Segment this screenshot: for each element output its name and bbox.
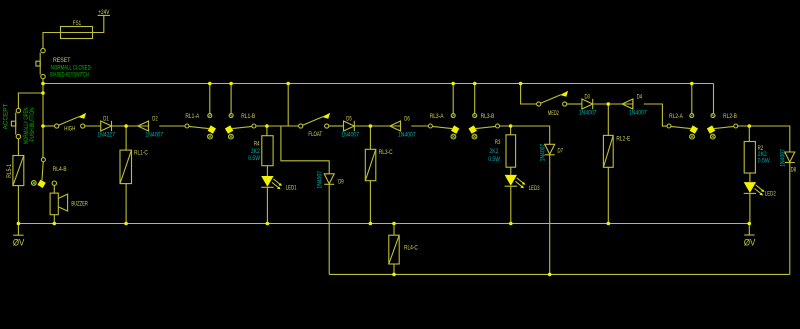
svg-text:RL1-A: RL1-A — [185, 113, 199, 120]
wire D9 down to bottom rail — [328, 184, 330, 274]
buzzer BUZZER — [50, 181, 88, 215]
svg-text:1N4007: 1N4007 — [341, 131, 359, 138]
wire HIGH to D1 — [85, 125, 101, 127]
svg-text:D6: D6 — [404, 115, 410, 122]
power port 0V left — [13, 235, 25, 247]
wire RL3-B to D7 branch corner — [500, 126, 550, 144]
wire MED2 to D3 — [567, 103, 582, 105]
svg-text:LED2: LED2 — [765, 190, 776, 197]
svg-text:RL4-C: RL4-C — [404, 244, 418, 251]
wire 0V ground rail — [18, 223, 749, 225]
wire RL1-B to FLOAT — [256, 125, 299, 127]
diode D8 1N4007 (vertical) — [780, 149, 797, 174]
relay contact RL3-B — [469, 113, 500, 139]
svg-text:LED3: LED3 — [529, 185, 540, 192]
svg-text:RL3-A: RL3-A — [430, 113, 444, 120]
power port +24V — [98, 9, 110, 16]
diode D9 1N4007 (vertical) — [316, 170, 344, 188]
diode D2 1N4007 — [138, 116, 164, 139]
wire D6 to RL3-A — [411, 125, 428, 127]
wire FLOAT to D5 — [329, 125, 344, 127]
svg-text:R3: R3 — [495, 139, 501, 146]
wire node to resistor R4 — [266, 126, 268, 136]
svg-text:LED1: LED1 — [286, 185, 297, 192]
svg-text:1N4007: 1N4007 — [316, 170, 323, 188]
svg-text:0.5W: 0.5W — [248, 155, 260, 162]
wire top supply rail — [43, 83, 714, 85]
svg-text:D5: D5 — [346, 116, 352, 123]
svg-text:0.5W: 0.5W — [488, 156, 500, 163]
svg-text:RL1-C: RL1-C — [134, 150, 148, 157]
svg-text:+24V: +24V — [98, 9, 110, 16]
fuse FS1 — [61, 20, 93, 38]
wire rail branch to MED2 — [521, 84, 537, 105]
wire bottom return rail — [329, 273, 790, 275]
relay coil RL3-C — [365, 149, 393, 181]
svg-text:1N4227: 1N4227 — [97, 132, 115, 139]
svg-text:ACCEPT: ACCEPT — [3, 103, 10, 129]
LED LED3 — [505, 175, 540, 192]
wire LED3 to 0V rail — [510, 186, 512, 223]
relay contact RL3-A — [428, 113, 459, 139]
svg-text:MED2: MED2 — [548, 110, 559, 117]
wire node to resistor R2 — [748, 126, 750, 142]
wire RL3-B to rail — [474, 84, 476, 114]
wire 0V rail to right power port — [748, 224, 750, 236]
switch MED2 — [537, 91, 569, 117]
svg-text:D4: D4 — [637, 94, 643, 101]
wire R4 to LED1 — [266, 166, 268, 176]
relay coil RL5-1 — [6, 156, 24, 186]
switch HIGH — [55, 113, 87, 133]
wire +24V to fuse — [43, 15, 104, 48]
wire coil RL1-C to 0V rail — [125, 184, 127, 224]
wire D8 down to bottom rail — [789, 163, 791, 275]
relay contact RL2-B — [707, 113, 738, 139]
wire RL1-A to rail — [209, 84, 211, 114]
wire ACCEPT to coil RL5-1 — [17, 139, 19, 156]
svg-text:PUSH BUTTON: PUSH BUTTON — [29, 108, 36, 142]
relay coil RL4-C — [389, 235, 418, 264]
svg-text:RESET: RESET — [53, 57, 71, 64]
LED LED2 — [744, 182, 776, 197]
wire LED2 to 0V rail — [749, 193, 751, 223]
svg-text:2K2: 2K2 — [251, 148, 260, 155]
wire D5 to D6 — [354, 125, 400, 127]
svg-text:RL2-B: RL2-B — [723, 113, 737, 120]
wire 0V rail to coil RL4-C — [393, 224, 395, 236]
resistor R4 — [248, 136, 273, 166]
svg-text:D8: D8 — [791, 166, 797, 173]
diode D6 1N4007 — [390, 115, 416, 138]
relay coil RL2-E — [603, 135, 630, 167]
svg-text:D1: D1 — [103, 116, 109, 123]
resistor R2 — [744, 142, 770, 174]
svg-text:1N4007: 1N4007 — [398, 132, 416, 139]
wire rail end down to RL2-B — [713, 84, 715, 114]
svg-text:RL5-1: RL5-1 — [6, 164, 13, 178]
wire node down to D9 branch — [281, 126, 329, 174]
relay contact RL4-B — [31, 158, 66, 188]
switch FLOAT — [299, 113, 331, 138]
svg-text:BUZZER: BUZZER — [71, 201, 88, 208]
wire coil RL4-C to bottom rail — [393, 264, 395, 274]
svg-text:1N4007: 1N4007 — [629, 110, 647, 117]
wire coil RL3-C to 0V rail — [369, 181, 371, 224]
wire D3 to D4 — [593, 103, 633, 105]
wire D4 to RL2-A — [644, 104, 667, 126]
wire RL2-B to D8 branch corner — [738, 126, 790, 152]
wire RL2-A to rail — [691, 84, 693, 114]
svg-text:FLOAT: FLOAT — [308, 131, 322, 138]
svg-text:D3: D3 — [584, 94, 590, 101]
wire coil RL5-1 to 0V rail — [17, 186, 19, 236]
svg-text:NORMALL CLOSED: NORMALL CLOSED — [51, 64, 91, 71]
svg-text:BIASED KEYSWITCH: BIASED KEYSWITCH — [50, 72, 89, 79]
push button ACCEPT (normally open) — [3, 103, 37, 144]
wire D2 to RL1-A — [159, 125, 185, 127]
wire branch to ACCEPT button — [18, 93, 43, 108]
wire node down to coil RL1-C — [125, 126, 127, 150]
keyswitch RESET (normally closed biased keyswitch) — [36, 48, 91, 78]
diode D3 1N4007 — [579, 94, 597, 117]
wire coil RL2-E to 0V rail — [607, 167, 609, 223]
wire D7 down to bottom rail — [549, 155, 551, 275]
wire rail drop to node — [287, 84, 289, 127]
svg-text:0.5W: 0.5W — [758, 158, 770, 165]
svg-text:1N4007: 1N4007 — [579, 110, 597, 117]
wire node to resistor R3 — [510, 126, 512, 135]
diode D4 1N4007 — [622, 94, 647, 117]
relay contact RL2-A — [667, 113, 698, 139]
svg-text:1N4007: 1N4007 — [145, 132, 163, 139]
svg-text:2K2: 2K2 — [490, 148, 499, 155]
svg-text:RL3-B: RL3-B — [481, 113, 495, 120]
svg-text:D2: D2 — [152, 116, 158, 123]
wire D1 to D2 — [112, 125, 149, 127]
svg-text:D7: D7 — [558, 148, 564, 155]
wire LED1 to 0V rail — [266, 187, 268, 223]
svg-text:1N4007: 1N4007 — [780, 149, 787, 167]
svg-text:D9: D9 — [338, 178, 344, 185]
power port 0V right — [744, 235, 756, 247]
resistor R3 — [488, 135, 515, 167]
wire RL3-A to rail — [452, 84, 454, 114]
wire R2 to LED2 — [749, 173, 751, 182]
svg-text:ØV: ØV — [744, 237, 756, 247]
svg-text:HIGH: HIGH — [64, 125, 75, 132]
svg-text:RL4-B: RL4-B — [53, 166, 67, 173]
diode D1 1N4227 — [97, 116, 115, 139]
wire node down to coil RL2-E — [607, 104, 609, 135]
svg-text:R4: R4 — [254, 140, 260, 147]
wire to HIGH switch — [43, 125, 55, 127]
diode D7 1N4007 (vertical) — [539, 143, 563, 161]
wire RL1-B to rail — [230, 84, 232, 114]
wire R3 to LED3 — [510, 167, 512, 175]
svg-text:RL3-C: RL3-C — [379, 149, 393, 156]
LED LED1 — [261, 176, 297, 192]
wire buzzer to 0V rail — [53, 215, 55, 224]
relay contact RL1-B — [225, 113, 256, 139]
svg-text:1N4007: 1N4007 — [539, 143, 546, 161]
relay contact RL1-A — [185, 113, 216, 139]
wire keyswitch down left column — [42, 79, 44, 158]
svg-text:RL2-E: RL2-E — [616, 135, 630, 142]
svg-text:ØV: ØV — [13, 238, 25, 248]
svg-text:RL2-A: RL2-A — [669, 113, 683, 120]
relay coil RL1-C — [120, 150, 148, 184]
diode D5 1N4007 — [341, 116, 359, 139]
wire node down to coil RL3-C — [369, 126, 371, 149]
svg-text:RL1-B: RL1-B — [241, 113, 255, 120]
